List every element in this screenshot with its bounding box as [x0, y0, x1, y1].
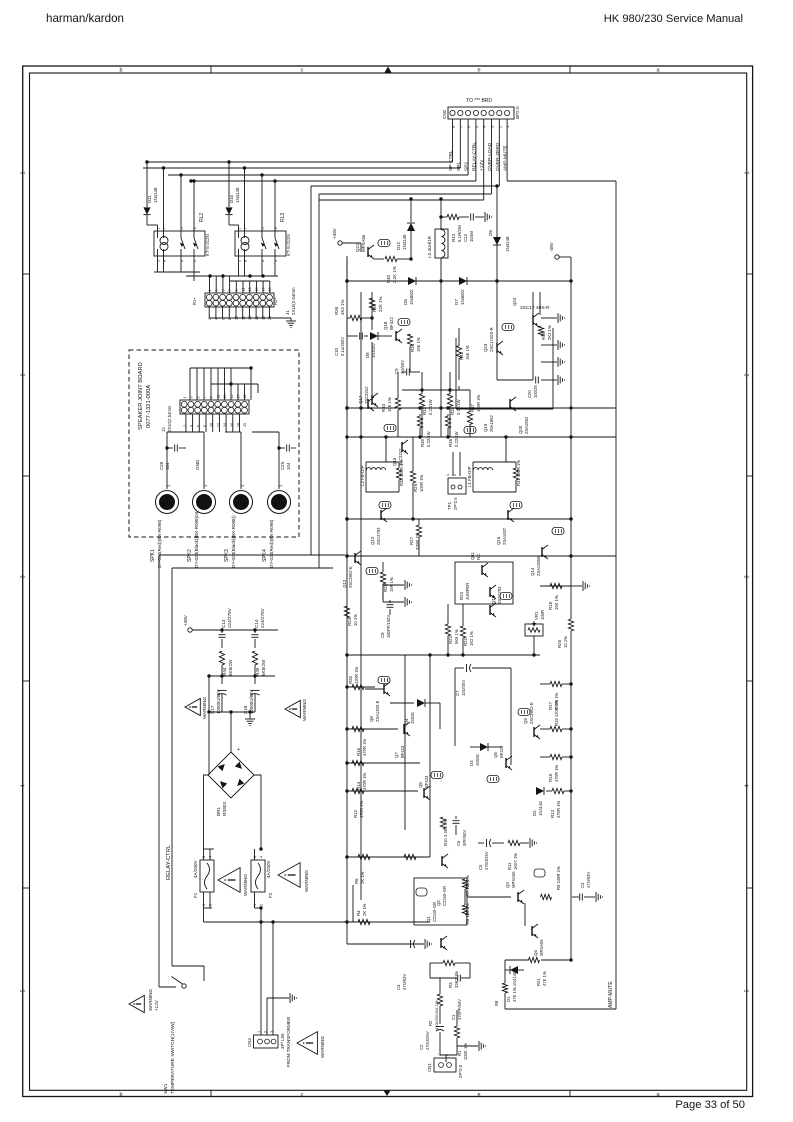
- svg-text:HK 980/230 Service Manual: HK 980/230 Service Manual: [604, 13, 743, 25]
- svg-text:+12V: +12V: [154, 999, 159, 1011]
- svg-text:6K8/2W: 6K8/2W: [228, 659, 233, 676]
- svg-text:1: 1: [21, 171, 27, 174]
- svg-text:4: 4: [260, 856, 264, 858]
- svg-text:F1: F1: [193, 892, 198, 898]
- svg-text:harman/kardon: harman/kardon: [46, 12, 124, 25]
- svg-text:BF422: BF422: [499, 745, 504, 758]
- svg-text:4: 4: [209, 856, 213, 858]
- svg-text:SP1: SP1: [456, 162, 462, 171]
- svg-text:R7 180 1%: R7 180 1%: [465, 875, 470, 896]
- svg-text:0.22/1W: 0.22/1W: [456, 399, 461, 415]
- svg-text:MPSA06: MPSA06: [511, 871, 516, 888]
- svg-text:Q20: Q20: [518, 425, 523, 434]
- svg-text:D6: D6: [488, 230, 493, 236]
- svg-text:R9 249R 1%: R9 249R 1%: [556, 866, 561, 890]
- svg-text:R20: R20: [348, 675, 353, 684]
- svg-text:C7: C7: [455, 690, 460, 696]
- svg-text:AMP-MUTE: AMP-MUTE: [503, 145, 509, 171]
- svg-text:3: 3: [202, 856, 206, 858]
- svg-text:D7: D7: [454, 299, 459, 305]
- svg-text:D5: D5: [403, 299, 408, 305]
- svg-text:15K 1%: 15K 1%: [389, 577, 394, 592]
- svg-text:3P* L06: 3P* L06: [280, 1033, 285, 1049]
- svg-text:R2+: R2+: [273, 297, 278, 305]
- svg-text:AMP-MUTE: AMP-MUTE: [608, 981, 614, 1008]
- svg-text:2: 2: [264, 1031, 268, 1033]
- svg-text:15: 15: [255, 288, 259, 292]
- svg-text:D11: D11: [147, 195, 152, 203]
- svg-text:FROM TRANSFORMER: FROM TRANSFORMER: [286, 1016, 291, 1067]
- svg-text:12000U/63V: 12000U/63V: [216, 690, 221, 714]
- svg-text:3PF/50V: 3PF/50V: [462, 829, 467, 846]
- svg-text:2: 2: [744, 373, 750, 376]
- svg-text:47K 1%: 47K 1%: [542, 971, 547, 986]
- svg-text:C4: C4: [396, 984, 401, 990]
- svg-text:CN2: CN2: [442, 109, 447, 119]
- svg-text:2SA1300-E: 2SA1300-E: [375, 700, 380, 722]
- svg-text:3: 3: [253, 856, 257, 858]
- svg-text:VR1: VR1: [534, 611, 539, 620]
- svg-text:C14: C14: [254, 619, 259, 628]
- svg-text:b: b: [119, 68, 122, 74]
- svg-text:10 1%: 10 1%: [353, 614, 358, 626]
- svg-text:SPK2: SPK2: [187, 549, 193, 562]
- svg-text:OVER-ZERO: OVER-ZERO: [495, 142, 501, 171]
- svg-text:C8: C8: [380, 632, 385, 638]
- svg-text:J1: J1: [285, 310, 290, 315]
- svg-text:-48V: -48V: [549, 241, 554, 252]
- svg-text:BF423: BF423: [400, 745, 405, 758]
- svg-text:J2: J2: [161, 427, 166, 432]
- svg-text:WARNING: WARNING: [302, 699, 307, 721]
- svg-text:470R 1%: 470R 1%: [362, 772, 367, 790]
- svg-text:R15: R15: [548, 773, 553, 782]
- svg-text:5: 5: [21, 989, 27, 992]
- svg-text:C17: C17: [210, 705, 215, 714]
- svg-text:R23: R23: [459, 591, 464, 600]
- svg-text:1: 1: [183, 397, 187, 399]
- svg-text:DY-024(Black)(BX-R098)04: DY-024(Black)(BX-R098)04: [194, 511, 199, 568]
- svg-text:470R 1%: 470R 1%: [362, 738, 367, 756]
- svg-text:R26: R26: [557, 639, 562, 648]
- svg-text:47K 1% 1N4148: 47K 1% 1N4148: [512, 971, 517, 1002]
- svg-text:2SC1740S-R: 2SC1740S-R: [489, 327, 494, 352]
- svg-text:Q4: Q4: [533, 950, 538, 956]
- svg-text:c: c: [301, 68, 304, 74]
- svg-text:100/25: 100/25: [533, 385, 538, 398]
- svg-text:Q2: Q2: [436, 900, 441, 906]
- svg-text:BR1: BR1: [216, 807, 221, 816]
- svg-text:R43: R43: [451, 233, 456, 242]
- svg-text:3: 3: [21, 575, 27, 578]
- svg-text:R39: R39: [372, 303, 377, 312]
- svg-text:+12V: +12V: [479, 159, 485, 171]
- svg-text:R6 180 1%: R6 180 1%: [465, 903, 470, 924]
- svg-text:104: 104: [165, 462, 170, 470]
- svg-text:DY-024(Red)(BX-R098): DY-024(Red)(BX-R098): [157, 519, 162, 568]
- svg-text:R1: R1: [457, 1050, 462, 1056]
- svg-text:R2: R2: [428, 1020, 433, 1026]
- svg-text:1K07 1%: 1K07 1%: [513, 853, 518, 870]
- svg-text:1N4002: 1N4002: [409, 289, 414, 305]
- svg-text:1: 1: [446, 474, 450, 476]
- svg-text:R16: R16: [356, 747, 361, 756]
- svg-text:15K 1%: 15K 1%: [554, 595, 559, 610]
- svg-text:b: b: [119, 1092, 122, 1098]
- svg-text:0.22/1W: 0.22/1W: [454, 431, 459, 447]
- svg-text:470U/25V: 470U/25V: [484, 851, 489, 870]
- svg-text:1: 1: [208, 290, 212, 292]
- svg-text:2SA1306E: 2SA1306E: [536, 556, 541, 576]
- svg-text:C20: C20: [527, 390, 532, 398]
- svg-text:7: 7: [228, 290, 232, 292]
- svg-text:R12: R12: [353, 809, 358, 818]
- svg-text:3K3 1%: 3K3 1%: [340, 300, 345, 315]
- svg-text:WARNING: WARNING: [148, 989, 153, 1011]
- svg-text:C28: C28: [159, 461, 164, 470]
- svg-text:470R 1%: 470R 1%: [554, 764, 559, 782]
- svg-text:KT-S-212N: KT-S-212N: [286, 234, 291, 256]
- svg-text:D3: D3: [469, 760, 474, 766]
- svg-text:DY-024(Red)(BX-R098): DY-024(Red)(BX-R098): [269, 519, 274, 568]
- svg-text:R8: R8: [494, 1000, 499, 1006]
- svg-text:e: e: [477, 1092, 480, 1098]
- svg-text:R27: R27: [409, 536, 414, 545]
- svg-text:TP1: TP1: [447, 501, 452, 510]
- svg-text:R10 3.3K2 1%: R10 3.3K2 1%: [443, 819, 448, 846]
- svg-text:R17: R17: [548, 701, 553, 710]
- svg-text:2: 2: [21, 373, 27, 376]
- svg-text:15S81: 15S81: [410, 711, 415, 724]
- svg-text:TO *** BRD: TO *** BRD: [466, 98, 492, 104]
- svg-text:15: 15: [230, 395, 234, 399]
- svg-text:47U/63V: 47U/63V: [586, 871, 591, 888]
- svg-text:2: 2: [453, 474, 457, 476]
- svg-text:5: 5: [221, 290, 225, 292]
- svg-text:25A1962: 25A1962: [489, 415, 494, 432]
- svg-text:19: 19: [268, 288, 272, 292]
- svg-text:Q6: Q6: [493, 752, 498, 758]
- svg-text:9: 9: [235, 290, 239, 292]
- svg-text:NC: NC: [476, 554, 481, 560]
- svg-text:Page 33 of 50: Page 33 of 50: [675, 1099, 745, 1111]
- svg-text:20: 20: [243, 423, 247, 427]
- svg-text:2K 1%: 2K 1%: [360, 871, 365, 884]
- svg-text:100K 1%: 100K 1%: [463, 1043, 468, 1060]
- svg-text:1: 1: [257, 1031, 261, 1033]
- svg-text:Q5: Q5: [418, 782, 423, 788]
- svg-text:47U/63V: 47U/63V: [402, 973, 407, 990]
- svg-text:C18: C18: [243, 705, 248, 714]
- svg-text:JUMPER: JUMPER: [465, 583, 470, 600]
- svg-text:2X10(2.54mm: 2X10(2.54mm: [291, 287, 296, 315]
- svg-text:Q14: Q14: [530, 567, 535, 576]
- svg-text:RELAY-CTRL: RELAY-CTRL: [471, 142, 477, 171]
- svg-text:1N4148: 1N4148: [538, 801, 543, 816]
- svg-text:1N4148: 1N4148: [402, 234, 407, 250]
- svg-text:Q3: Q3: [505, 882, 510, 888]
- svg-text:1: 1: [438, 1054, 442, 1056]
- svg-text:1N4148: 1N4148: [235, 187, 240, 203]
- svg-text:R4: R4: [356, 910, 361, 916]
- svg-text:SP2: SP2: [464, 162, 470, 171]
- svg-text:+48V: +48V: [183, 614, 188, 626]
- svg-text:13: 13: [248, 288, 252, 292]
- svg-text:+: +: [237, 747, 240, 753]
- svg-text:R40: R40: [386, 274, 391, 283]
- svg-text:R34: R34: [410, 343, 415, 352]
- svg-text:GND: GND: [195, 459, 200, 470]
- svg-text:2: 2: [445, 1054, 449, 1056]
- svg-text:+48V: +48V: [332, 227, 337, 239]
- svg-text:Q9: Q9: [523, 718, 528, 724]
- svg-text:BP2.0: BP2.0: [515, 106, 520, 119]
- svg-text:SPK1: SPK1: [150, 549, 156, 562]
- svg-text:19: 19: [243, 395, 247, 399]
- svg-text:C12: C12: [463, 233, 468, 242]
- svg-text:C3: C3: [580, 882, 585, 888]
- svg-text:OVER-LOAD: OVER-LOAD: [487, 142, 493, 171]
- svg-text:C5: C5: [478, 864, 483, 870]
- svg-text:CN1: CN1: [427, 1063, 432, 1072]
- svg-text:C2240-GR: C2240-GR: [442, 886, 447, 906]
- svg-text:100R 1%: 100R 1%: [419, 474, 424, 492]
- svg-text:c: c: [301, 1092, 304, 1098]
- svg-text:RS803: RS803: [222, 802, 227, 816]
- svg-text:224/275V: 224/275V: [227, 607, 232, 628]
- svg-text:9: 9: [210, 397, 214, 399]
- svg-text:Q17: Q17: [358, 395, 363, 404]
- svg-text:120R 1%: 120R 1%: [354, 666, 359, 684]
- svg-text:470R 1%: 470R 1%: [556, 800, 561, 818]
- svg-text:Q19: Q19: [483, 423, 488, 432]
- svg-text:F2: F2: [268, 892, 273, 898]
- svg-text:2K2 1%: 2K2 1%: [547, 325, 552, 340]
- svg-text:MPSA06: MPSA06: [539, 939, 544, 956]
- svg-text:17: 17: [237, 395, 241, 399]
- svg-text:R35: R35: [448, 438, 453, 447]
- svg-text:RELAY-CTRL: RELAY-CTRL: [166, 844, 172, 880]
- svg-text:470R 1%: 470R 1%: [359, 800, 364, 818]
- svg-text:3: 3: [215, 290, 219, 292]
- svg-text:RL3: RL3: [280, 213, 286, 222]
- svg-text:1N4002: 1N4002: [460, 289, 465, 305]
- svg-text:WARNING: WARNING: [320, 1036, 325, 1058]
- svg-text:R19 120R 1%: R19 120R 1%: [554, 700, 559, 726]
- svg-text:2SC17 40S-R: 2SC17 40S-R: [520, 305, 550, 311]
- svg-text:R38: R38: [334, 306, 339, 315]
- svg-text:R29: R29: [413, 483, 418, 492]
- svg-text:5K6 1%: 5K6 1%: [454, 629, 459, 644]
- svg-text:C10: C10: [334, 347, 339, 356]
- svg-text:2P*2.5: 2P*2.5: [453, 497, 458, 510]
- svg-text:0.1u/250V: 0.1u/250V: [340, 337, 345, 356]
- svg-text:Q12: Q12: [342, 579, 347, 588]
- svg-text:2SC3902-E: 2SC3902-E: [348, 566, 353, 588]
- svg-text:5: 5: [744, 989, 750, 992]
- svg-text:Q18: Q18: [383, 321, 388, 330]
- svg-text:SPEAKER JOINT BOARD: SPEAKER JOINT BOARD: [138, 362, 144, 430]
- svg-text:1: 1: [157, 227, 161, 229]
- svg-text:R30: R30: [420, 438, 425, 447]
- svg-text:2X10(2.54mm: 2X10(2.54mm: [167, 405, 172, 432]
- svg-text:RL2: RL2: [199, 213, 205, 222]
- svg-text:C2: C2: [419, 1044, 424, 1050]
- svg-text:2SA1837: 2SA1837: [502, 527, 507, 545]
- svg-text:2.2K 1%: 2.2K 1%: [392, 266, 397, 283]
- svg-text:2SC4793: 2SC4793: [497, 586, 502, 604]
- svg-text:R5: R5: [354, 878, 359, 884]
- svg-text:MPSA56: MPSA56: [361, 234, 366, 252]
- svg-text:15K 1%: 15K 1%: [465, 345, 470, 360]
- svg-text:BF422: BF422: [389, 317, 394, 330]
- svg-text:1: 1: [253, 904, 257, 906]
- svg-text:R46: R46: [541, 332, 546, 340]
- svg-text:470U/25V: 470U/25V: [425, 1031, 430, 1050]
- svg-text:10U/25V: 10U/25V: [461, 679, 466, 696]
- svg-text:10K 1%: 10K 1%: [387, 397, 392, 412]
- svg-text:470U25V/1K 1%: 470U25V/1K 1%: [434, 1000, 439, 1030]
- svg-text:2SC4793: 2SC4793: [376, 527, 381, 545]
- svg-text:1: 1: [202, 904, 206, 906]
- svg-text:R42: R42: [459, 351, 464, 360]
- svg-text:11: 11: [241, 288, 245, 292]
- svg-text:Q15: Q15: [496, 536, 501, 545]
- svg-text:D10: D10: [229, 194, 234, 203]
- svg-text:4: 4: [21, 784, 27, 787]
- svg-text:R1+: R1+: [192, 297, 197, 305]
- svg-text:L1 FB-DIP: L1 FB-DIP: [467, 466, 472, 487]
- svg-text:0077-1321-000A: 0077-1321-000A: [146, 385, 152, 428]
- svg-text:Q1: Q1: [426, 916, 431, 922]
- svg-text:R11: R11: [507, 862, 512, 870]
- svg-text:Q13: Q13: [370, 536, 375, 545]
- svg-text:1K2 1%: 1K2 1%: [469, 631, 474, 646]
- svg-text:L2 FB-DIP: L2 FB-DIP: [360, 465, 365, 486]
- svg-text:WARNING: WARNING: [202, 697, 207, 719]
- svg-text:SPK3: SPK3: [224, 549, 230, 562]
- svg-text:SW1: SW1: [163, 1083, 169, 1094]
- svg-text:WARNING: WARNING: [304, 870, 309, 892]
- svg-text:470PF/50V: 470PF/50V: [457, 999, 462, 1020]
- svg-text:10 1%: 10 1%: [563, 636, 568, 648]
- svg-text:Q24: Q24: [512, 297, 517, 306]
- svg-text:e: e: [477, 68, 480, 74]
- svg-text:104: 104: [286, 462, 291, 470]
- svg-text:15S81: 15S81: [475, 753, 480, 766]
- svg-text:5.1R/2W: 5.1R/2W: [457, 224, 462, 242]
- svg-text:L3 4uH/1R: L3 4uH/1R: [427, 235, 432, 258]
- svg-text:2P*2.0: 2P*2.0: [458, 1064, 463, 1078]
- svg-text:R13: R13: [550, 809, 555, 818]
- svg-text:CN3: CN3: [247, 1038, 252, 1047]
- svg-text:D2: D2: [532, 810, 537, 816]
- svg-text:2: 2: [260, 904, 264, 906]
- svg-text:D8: D8: [365, 352, 370, 358]
- svg-text:KT-S-212N: KT-S-212N: [205, 234, 210, 256]
- svg-text:C29: C29: [280, 461, 285, 470]
- svg-text:R22: R22: [463, 637, 468, 646]
- svg-text:104M: 104M: [469, 231, 474, 242]
- svg-text:R3: R3: [448, 982, 453, 988]
- svg-text:1: 1: [744, 171, 750, 174]
- svg-text:Q23: Q23: [483, 343, 488, 352]
- svg-text:1: 1: [238, 227, 242, 229]
- svg-text:224/275V: 224/275V: [260, 607, 265, 628]
- svg-text:C13: C13: [221, 619, 226, 628]
- svg-text:15K 1%: 15K 1%: [416, 337, 421, 352]
- svg-text:13: 13: [223, 395, 227, 399]
- svg-text:R28 100R 1%: R28 100R 1%: [399, 460, 404, 486]
- svg-text:C1: C1: [451, 1014, 456, 1020]
- svg-text:R21: R21: [448, 635, 453, 644]
- svg-text:Q11: Q11: [470, 551, 475, 560]
- svg-text:C6: C6: [456, 840, 461, 846]
- svg-text:Q7: Q7: [394, 752, 399, 758]
- svg-text:R31 100R 1%: R31 100R 1%: [516, 460, 521, 486]
- svg-text:Q10: Q10: [491, 595, 496, 604]
- svg-text:180PF/100V: 180PF/100V: [386, 615, 391, 638]
- svg-text:2K 1%: 2K 1%: [362, 903, 367, 916]
- svg-text:2SA1962: 2SA1962: [524, 416, 529, 434]
- svg-text:0.22/1W: 0.22/1W: [426, 431, 431, 447]
- svg-text:4: 4: [744, 784, 750, 787]
- svg-text:0.22/1W: 0.22/1W: [428, 399, 433, 415]
- svg-text:1N4148: 1N4148: [153, 187, 158, 203]
- svg-text:R41: R41: [536, 978, 541, 986]
- svg-text:R18: R18: [548, 601, 553, 610]
- svg-text:33K2 1%: 33K2 1%: [454, 971, 459, 988]
- svg-text:TEMPERATURE SWITCH(17AW): TEMPERATURE SWITCH(17AW): [170, 1021, 176, 1094]
- svg-text:1N4148: 1N4148: [505, 236, 510, 252]
- svg-text:SPK4: SPK4: [262, 549, 268, 562]
- svg-text:100R: 100R: [540, 610, 545, 620]
- svg-text:3: 3: [744, 575, 750, 578]
- svg-text:3: 3: [270, 1031, 274, 1033]
- svg-text:Q8: Q8: [369, 716, 374, 722]
- svg-text:4A/250V: 4A/250V: [193, 859, 198, 878]
- svg-text:17: 17: [262, 288, 266, 292]
- svg-text:D12: D12: [396, 241, 401, 250]
- svg-text:2: 2: [209, 904, 213, 906]
- svg-text:BF423: BF423: [424, 775, 429, 788]
- svg-text:6K8/2W: 6K8/2W: [261, 659, 266, 676]
- svg-text:WARNING: WARNING: [243, 874, 248, 896]
- svg-text:D1: D1: [506, 996, 511, 1002]
- svg-text:Q21: Q21: [355, 243, 360, 252]
- svg-text:R24: R24: [347, 617, 352, 626]
- svg-text:4A/250V: 4A/250V: [266, 859, 271, 878]
- svg-text:22K 1%: 22K 1%: [378, 297, 383, 312]
- svg-text:DY-024(Black)(BX-R098)): DY-024(Black)(BX-R098)): [231, 515, 236, 568]
